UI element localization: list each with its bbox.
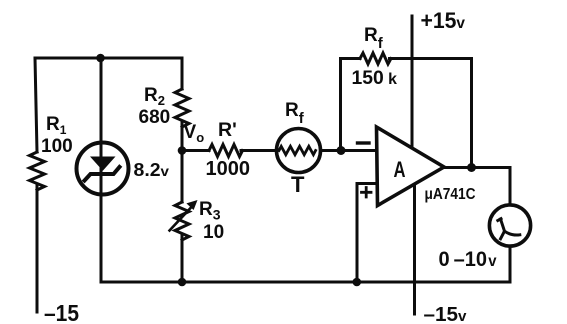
wire -15v supply (413, 185, 416, 315)
meter M1 needle symbol (498, 219, 520, 239)
svg-text:10: 10 (203, 222, 224, 243)
svg-text:R1: R1 (46, 114, 67, 137)
node junction dot top (zener branch) (96, 54, 105, 63)
wire +15v supply (411, 16, 414, 149)
wire R' to thermistor (241, 149, 277, 152)
wire zener branch vertical (100, 58, 103, 282)
op-amp A triangle (377, 127, 445, 206)
zener diode D1 cathode bar (85, 167, 120, 181)
label op-amp part uA741C (425, 186, 476, 203)
op-amp minus sign (358, 141, 370, 144)
label +15v supply (421, 8, 466, 33)
svg-text:100: 100 (41, 136, 73, 157)
label R' value 1000 (206, 157, 251, 180)
label R1 (46, 114, 67, 137)
svg-text:–15v: –15v (424, 303, 468, 324)
label node V0 (184, 122, 205, 145)
label feedback Rf (364, 25, 384, 52)
label R2 (144, 85, 165, 108)
wire non-inverting input (357, 184, 377, 283)
svg-text:–15: –15 (44, 300, 79, 324)
zener diode D1 triangle (90, 157, 116, 171)
label -15v supply (424, 303, 468, 324)
svg-text:A: A (394, 157, 406, 182)
label feedback value 150k (352, 67, 398, 89)
resistor R' (209, 145, 243, 157)
label op-amp A (394, 157, 406, 182)
label thermistor T (291, 172, 305, 197)
svg-text:8.2v: 8.2v (134, 160, 170, 180)
node dot non-inverting branch bottom (353, 278, 362, 287)
wire thermistor to op-amp inverting input (321, 149, 377, 152)
svg-text:+15v: +15v (421, 8, 466, 33)
wire R2/R3 branch vertical (181, 58, 184, 282)
wire bottom horizontal (101, 281, 510, 284)
label R2 value 680 (139, 107, 171, 128)
svg-text:680: 680 (139, 107, 171, 128)
wire meter bottom lead (509, 247, 512, 283)
svg-text:μA741C: μA741C (425, 186, 476, 203)
label meter range 0-10v (439, 247, 497, 271)
svg-text:150 k: 150 k (352, 67, 398, 89)
resistor Rf 150k (360, 53, 391, 64)
node output junction dot (467, 163, 476, 172)
wire output horizontal (444, 166, 510, 169)
svg-text:0 –10 v: 0 –10 v (439, 247, 497, 271)
label thermistor Rf (285, 100, 305, 127)
label R1 value 100 (41, 136, 73, 157)
wire left vertical (to -15 supply) (35, 58, 37, 312)
resistor R1 (30, 152, 45, 190)
node V0 junction dot (178, 146, 187, 155)
thermistor Rf internal element (279, 146, 316, 154)
svg-text:Rf: Rf (285, 100, 305, 127)
wire feedback vertical right (to output) (470, 59, 473, 168)
svg-text:Vo: Vo (184, 122, 205, 145)
wire meter top lead (509, 168, 512, 206)
svg-text:R2: R2 (144, 85, 165, 108)
wire feedback vertical left (339, 59, 342, 151)
resistor R2 (175, 89, 189, 127)
svg-text:Rf: Rf (364, 25, 384, 52)
label -15 supply (44, 300, 79, 324)
wire feedback horizontal (341, 57, 472, 60)
meter M1 circle (489, 205, 530, 246)
label R' (218, 119, 237, 141)
svg-text:1000: 1000 (206, 157, 251, 180)
label zener value 8.2v (134, 160, 170, 180)
resistor R3 arrow (170, 208, 192, 231)
wire V0 to R' (182, 149, 209, 152)
op-amp plus sign (362, 188, 372, 198)
zener diode D1 circle (77, 143, 129, 195)
svg-text:R3: R3 (199, 199, 221, 223)
node inverting input junction dot (337, 146, 346, 155)
node dot R3 bottom (178, 278, 187, 287)
resistor R3 (variable) (175, 202, 189, 240)
wire top-left horizontal (35, 57, 182, 60)
label R3 value 10 (203, 222, 224, 243)
label R3 (199, 199, 221, 223)
thermistor Rf circle (277, 129, 321, 173)
svg-text:T: T (291, 172, 305, 197)
svg-text:R': R' (218, 119, 237, 141)
